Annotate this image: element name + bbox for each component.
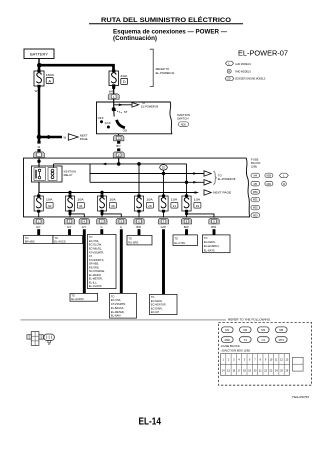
svg-text:EC-MAIN,: EC-MAIN, bbox=[204, 240, 216, 244]
wire ignition feed line bbox=[54, 163, 187, 168]
wire feed fuse 32 bbox=[38, 193, 40, 196]
svg-text:G/W: G/W bbox=[161, 225, 167, 229]
svg-text:TO: TO bbox=[111, 294, 115, 298]
reference legend box bbox=[219, 318, 312, 386]
svg-text:EL-14: EL-14 bbox=[139, 417, 162, 428]
connector oval M51 bbox=[251, 197, 260, 202]
bracket refer to EL-POWER-01 bbox=[150, 49, 175, 86]
svg-text:TO: TO bbox=[89, 235, 93, 239]
label TO EL-POWER-08 with brace bbox=[213, 171, 235, 184]
wire battery feed to relay contact bbox=[38, 158, 40, 167]
wire battery bus to fuse D bbox=[40, 65, 114, 70]
connector fuse block output pin 9 bbox=[209, 218, 219, 224]
svg-text:EL-ASCD: EL-ASCD bbox=[54, 239, 65, 243]
switch position ST bbox=[115, 110, 128, 114]
svg-text:BR-ABS: BR-ABS bbox=[25, 239, 35, 243]
svg-text:W: W bbox=[63, 136, 66, 140]
svg-text:M30: M30 bbox=[267, 175, 272, 178]
wire fuse 30 output split bbox=[101, 212, 122, 217]
svg-text:10A: 10A bbox=[194, 198, 201, 202]
wire B/W down bbox=[185, 229, 188, 235]
svg-text:EL-METER,: EL-METER, bbox=[89, 277, 103, 281]
svg-text:(Continuación): (Continuación) bbox=[113, 35, 157, 42]
svg-text:150A: 150A bbox=[46, 73, 55, 77]
svg-text:10A: 10A bbox=[77, 198, 84, 202]
svg-text:EC-GLOW,: EC-GLOW, bbox=[89, 243, 102, 247]
svg-text:EL-POWER-08: EL-POWER-08 bbox=[218, 177, 236, 181]
connector face oval M20 bbox=[44, 334, 55, 346]
destination box TO EC-MAIN group bbox=[203, 235, 231, 253]
destination box TO EC-VSS group bbox=[110, 293, 137, 318]
svg-text:A: A bbox=[48, 78, 51, 83]
wire feed fuse 31 bbox=[69, 193, 71, 196]
svg-text:M53: M53 bbox=[253, 214, 258, 217]
svg-text:RUTA DEL SUMINISTRO ELÉCTRICO: RUTA DEL SUMINISTRO ELÉCTRICO bbox=[101, 15, 231, 24]
svg-text:TO: TO bbox=[204, 236, 208, 240]
destination box TO EL-ASCD bbox=[53, 235, 83, 243]
wire feed fuse 19 bbox=[186, 193, 188, 196]
svg-text:AT-NONDTC,: AT-NONDTC, bbox=[89, 258, 105, 262]
title header bbox=[89, 15, 243, 42]
connector oval M31 bbox=[265, 181, 273, 186]
svg-text:EL-POWER-06: EL-POWER-06 bbox=[141, 105, 158, 109]
switch arm to ON bbox=[114, 111, 127, 133]
svg-text:NEXT PAGE: NEXT PAGE bbox=[213, 191, 231, 195]
destination box TO EL-CTRL bbox=[173, 235, 198, 246]
wire to EL-POWER-08 (lower) bbox=[90, 164, 211, 195]
fuse 31 10A bbox=[65, 195, 84, 213]
fuse block label bbox=[251, 158, 261, 169]
wire fuse D to ignition switch bbox=[113, 86, 115, 94]
svg-text:EL-NAVI: EL-NAVI bbox=[111, 314, 121, 318]
legend RHD models bbox=[227, 69, 251, 73]
svg-text:EC-MIL/DL,: EC-MIL/DL, bbox=[89, 247, 103, 251]
svg-text:TO: TO bbox=[151, 295, 155, 299]
svg-text:REFER TO THE FOLLOWING.: REFER TO THE FOLLOWING. bbox=[228, 318, 271, 322]
svg-text:TO: TO bbox=[128, 236, 132, 240]
svg-text:SWITCH: SWITCH bbox=[177, 117, 188, 121]
wire B/W down bbox=[213, 229, 216, 235]
svg-text:M5: M5 bbox=[279, 328, 283, 332]
connector oval M53 bbox=[251, 213, 260, 218]
svg-text:ZD30DDTi ENGINE MODELS: ZD30DDTi ENGINE MODELS bbox=[235, 77, 265, 81]
svg-text:W/B: W/B bbox=[109, 89, 114, 93]
fusible link A 150A bbox=[34, 70, 54, 88]
svg-text:EL-CLOCK: EL-CLOCK bbox=[89, 284, 102, 288]
svg-text:ACC: ACC bbox=[105, 121, 112, 125]
legend text fuse block bbox=[221, 344, 250, 353]
wire G down bbox=[100, 229, 103, 234]
svg-text:RELAY: RELAY bbox=[64, 173, 73, 177]
svg-text:G: G bbox=[120, 225, 122, 229]
fuse 21 10A bbox=[159, 195, 178, 213]
ZD conditional oval bbox=[160, 164, 168, 195]
node on battery feed bbox=[37, 160, 40, 163]
svg-text:M74: M74 bbox=[279, 338, 285, 342]
svg-text:AT-VSSMTR,: AT-VSSMTR, bbox=[111, 302, 126, 306]
connector oval M52 bbox=[251, 205, 260, 210]
wire drop x90 bbox=[89, 164, 91, 182]
svg-text:EL-WARN,: EL-WARN, bbox=[89, 273, 102, 277]
svg-text:R: R bbox=[283, 183, 285, 186]
fuse 19 10A bbox=[182, 195, 201, 213]
connector fuse block output pin 7 bbox=[158, 218, 168, 224]
legend connector oval M2 bbox=[240, 327, 252, 333]
ignition switch box bbox=[97, 102, 172, 134]
wire feed fuse 29 bbox=[138, 193, 140, 196]
svg-text:M51: M51 bbox=[253, 199, 258, 202]
wire ignition switch output bbox=[118, 134, 120, 136]
svg-text:TO: TO bbox=[54, 236, 58, 240]
wire G/Y down bbox=[83, 229, 86, 293]
svg-text:B/W: B/W bbox=[211, 225, 216, 229]
svg-text:M1: M1 bbox=[225, 328, 229, 332]
svg-text:EL-METER,: EL-METER, bbox=[111, 310, 125, 314]
svg-text:40A: 40A bbox=[120, 74, 127, 78]
connector oval M50 bbox=[251, 190, 260, 195]
svg-text:D: D bbox=[123, 79, 126, 84]
legend connector oval M74 bbox=[276, 337, 288, 343]
node battery junction bbox=[37, 63, 42, 68]
connector ignition switch output pin 3 bbox=[114, 135, 124, 140]
svg-text:RHD MODELS: RHD MODELS bbox=[235, 70, 251, 74]
svg-text:T4: T4 bbox=[244, 338, 248, 342]
ignition switch label bbox=[177, 113, 190, 127]
switch position OFF bbox=[98, 116, 104, 123]
svg-text:32: 32 bbox=[48, 204, 52, 208]
legend connector oval T4 bbox=[240, 337, 252, 343]
wire to next page (left) bbox=[37, 134, 88, 141]
wire fuse 21 output bbox=[163, 212, 165, 217]
svg-text:10A: 10A bbox=[109, 198, 116, 202]
wire battery down bbox=[38, 59, 40, 65]
svg-text:AT,: AT, bbox=[89, 254, 93, 258]
svg-text:SC-CHARGE,: SC-CHARGE, bbox=[89, 269, 105, 273]
connector fuse block top right pin 2 bbox=[113, 152, 124, 158]
svg-text:EL-POWER-01: EL-POWER-01 bbox=[156, 71, 175, 75]
destination box TO EC-MAIN group 2 bbox=[150, 294, 178, 314]
svg-text:W: W bbox=[35, 89, 38, 93]
fuse block junction box outline bbox=[24, 158, 250, 217]
svg-text:EL-BACK/L,: EL-BACK/L, bbox=[111, 306, 125, 310]
connector fuse block output pin 1 bbox=[34, 218, 44, 224]
svg-text:M52: M52 bbox=[253, 207, 258, 210]
svg-text:TO: TO bbox=[25, 236, 29, 240]
wire fuse 19 output split bbox=[185, 212, 214, 217]
wire label B/Y bbox=[116, 141, 121, 151]
svg-text:10A: 10A bbox=[46, 198, 53, 202]
wire battery down to fusible link A bbox=[38, 65, 41, 137]
wire feed fuse 21 bbox=[163, 193, 165, 196]
svg-text:21: 21 bbox=[173, 204, 177, 208]
svg-text:19: 19 bbox=[196, 204, 200, 208]
wire to EL-POWER-08 (upper) bbox=[90, 171, 211, 176]
legend connector oval M3 bbox=[258, 327, 270, 333]
separator rule bbox=[21, 319, 227, 321]
wire G down bbox=[120, 229, 123, 293]
svg-text:EC-HEATUP,: EC-HEATUP, bbox=[151, 303, 166, 307]
svg-text:YEL297D: YEL297D bbox=[292, 395, 311, 399]
svg-text:G/Y: G/Y bbox=[36, 225, 41, 229]
relay layout cells bbox=[293, 357, 304, 371]
svg-text:EL-ILL,: EL-ILL, bbox=[89, 280, 98, 284]
legend LHD models bbox=[226, 61, 251, 66]
svg-text:-JUNCTION BOX (J/B): -JUNCTION BOX (J/B) bbox=[221, 348, 250, 352]
svg-text:M31: M31 bbox=[267, 183, 272, 186]
svg-text:10A: 10A bbox=[146, 198, 153, 202]
connector fuse block top left bbox=[34, 152, 45, 158]
legend circle R row2 bbox=[282, 181, 287, 186]
wire battery into fuse block bbox=[37, 137, 40, 152]
svg-text:B/Y: B/Y bbox=[116, 144, 121, 148]
svg-text:G/Y: G/Y bbox=[82, 225, 87, 229]
svg-text:ZD: ZD bbox=[162, 166, 166, 170]
connector fuse block output pin 8 bbox=[181, 218, 191, 224]
connector oval M30 bbox=[265, 173, 273, 178]
battery bbox=[24, 49, 54, 59]
svg-text:ON: ON bbox=[123, 128, 128, 132]
wire feed fuse 30 bbox=[101, 193, 103, 196]
svg-text:EL-CTRL: EL-CTRL bbox=[174, 241, 185, 245]
svg-text:C1: C1 bbox=[262, 338, 266, 342]
svg-text:M20: M20 bbox=[181, 123, 186, 126]
fusible link D 40A bbox=[109, 70, 128, 88]
node ignition switch common bbox=[112, 107, 116, 111]
wire fuse 31 output split bbox=[69, 212, 85, 217]
connector fuse block output pin 4 bbox=[79, 218, 89, 224]
svg-text:AT-VSSMTR,: AT-VSSMTR, bbox=[89, 250, 104, 254]
connector fuse block output pin 2 bbox=[97, 218, 107, 224]
wire G/Y down bbox=[68, 229, 71, 235]
svg-text:EC-VSS,: EC-VSS, bbox=[111, 298, 121, 302]
svg-text:EC-ECMRLY,: EC-ECMRLY, bbox=[204, 244, 220, 248]
svg-text:30: 30 bbox=[111, 204, 115, 208]
legend connector oval M5 bbox=[276, 327, 288, 333]
connector fuse block output pin 6 bbox=[134, 218, 144, 224]
svg-text:31: 31 bbox=[79, 204, 83, 208]
connector oval M5 bbox=[251, 181, 260, 186]
svg-text:B/R: B/R bbox=[137, 225, 141, 229]
svg-text:EL-POWER-07: EL-POWER-07 bbox=[238, 48, 288, 57]
node below fusible link D bbox=[112, 86, 115, 89]
svg-text:ZD: ZD bbox=[227, 78, 231, 81]
switch position ACC bbox=[105, 121, 112, 129]
connector ignition switch input pin 1 bbox=[108, 94, 119, 99]
svg-text:TO: TO bbox=[174, 236, 178, 240]
svg-text:OFF: OFF bbox=[98, 116, 104, 120]
wire branch to EL-POWER-06 bbox=[114, 101, 159, 108]
connector fuse block output pin 5 bbox=[116, 218, 126, 224]
fuse 29 10A bbox=[134, 195, 153, 213]
svg-text:SR-ABS,: SR-ABS, bbox=[89, 262, 99, 266]
svg-text:B/W: B/W bbox=[184, 225, 189, 229]
fuse 32 10A bbox=[34, 195, 53, 213]
svg-text:G: G bbox=[100, 225, 102, 229]
destination box TO BR-ABS bbox=[24, 235, 54, 243]
svg-text:LHD MODELS: LHD MODELS bbox=[235, 62, 251, 66]
svg-text:EC-DIR/V,: EC-DIR/V, bbox=[151, 306, 163, 310]
svg-text:(J/B): (J/B) bbox=[251, 164, 257, 168]
connector face relay socket bbox=[27, 332, 43, 346]
destination box TO RS-SRS bbox=[127, 235, 152, 245]
svg-text:M3: M3 bbox=[261, 328, 265, 332]
legend hexagon L row1 bbox=[279, 173, 288, 178]
fuse layout table bbox=[221, 354, 290, 376]
svg-text:EL-NATS: EL-NATS bbox=[204, 248, 215, 252]
connector fuse block output pin 3 bbox=[64, 218, 74, 224]
wire relay output bus bbox=[39, 182, 231, 195]
svg-text:W: W bbox=[38, 145, 41, 149]
svg-text:BATTERY: BATTERY bbox=[30, 53, 49, 57]
connector oval M4 bbox=[251, 173, 260, 178]
wire G/Y down bbox=[37, 229, 40, 235]
svg-text:M30: M30 bbox=[225, 338, 231, 342]
svg-text:RS-SRS: RS-SRS bbox=[128, 240, 138, 244]
node A ignition switch entry bbox=[117, 158, 121, 166]
wire ignition switch internal bbox=[113, 99, 115, 109]
svg-text:PAGE: PAGE bbox=[80, 137, 88, 141]
svg-text:10A: 10A bbox=[171, 198, 178, 202]
svg-text:R: R bbox=[228, 69, 230, 73]
svg-text:EC-VSS,: EC-VSS, bbox=[89, 239, 99, 243]
wire G/W down bbox=[162, 229, 165, 294]
wire B/R down bbox=[138, 229, 141, 235]
legend connector oval M1 bbox=[222, 327, 234, 333]
svg-text:EC-MAIN,: EC-MAIN, bbox=[151, 299, 163, 303]
svg-text:ST: ST bbox=[124, 110, 128, 114]
svg-text:G/Y: G/Y bbox=[67, 225, 72, 229]
wire fuse 29 output bbox=[138, 212, 140, 217]
destination box TO EL-AUDIO bbox=[70, 293, 98, 301]
svg-text:EC-IAT: EC-IAT bbox=[151, 310, 160, 314]
node fuse 27 feed bbox=[137, 162, 141, 195]
legend ZD30DDTi engine models bbox=[225, 76, 265, 80]
legend connector oval C1 bbox=[258, 337, 270, 343]
wire fuse 32 output bbox=[38, 212, 40, 217]
svg-text:RS-SRS,: RS-SRS, bbox=[89, 265, 100, 269]
svg-text:M2: M2 bbox=[243, 328, 247, 332]
svg-text:EL-AUDIO: EL-AUDIO bbox=[71, 297, 83, 301]
legend connector oval M30 bbox=[222, 337, 234, 343]
ignition relay bbox=[32, 166, 77, 182]
fuse 30 10A bbox=[97, 195, 116, 213]
svg-text:29: 29 bbox=[148, 204, 152, 208]
svg-text:M50: M50 bbox=[253, 191, 258, 194]
destination box tall list bbox=[88, 234, 117, 288]
svg-text:-FUSE BLOCK: -FUSE BLOCK bbox=[221, 344, 240, 348]
